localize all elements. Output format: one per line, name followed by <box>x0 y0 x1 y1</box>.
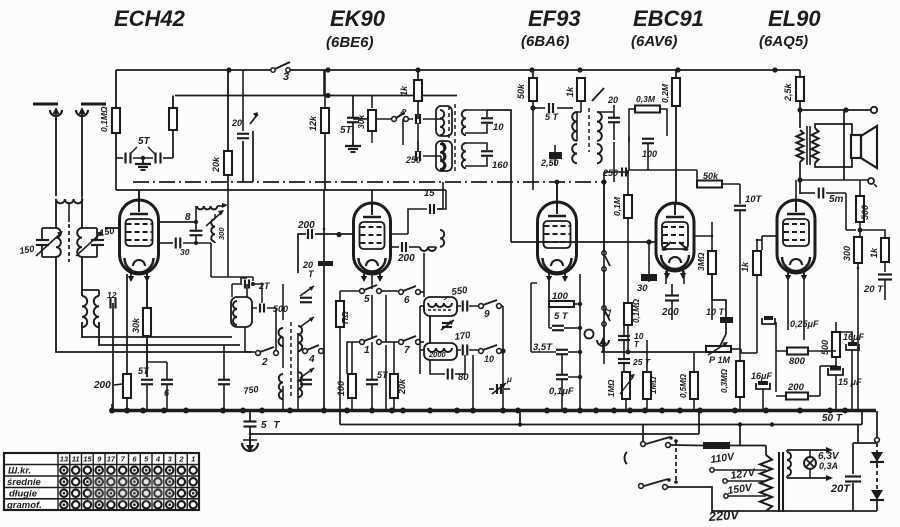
wire v1 left lead <box>105 227 120 229</box>
wire top B+ rail right <box>290 69 800 71</box>
svg-text:300: 300 <box>842 246 852 261</box>
resistor 0.3M 2 <box>736 361 744 397</box>
wire trimmer mu <box>489 388 510 390</box>
wire 200b <box>776 366 836 396</box>
svg-text:800: 800 <box>789 356 806 367</box>
tuned circuit 2 cap 150 <box>82 228 104 257</box>
tube label 6BA6 <box>521 33 569 50</box>
svg-text:160: 160 <box>492 160 509 171</box>
wire V1 top lead <box>138 190 140 202</box>
svg-text:4: 4 <box>308 354 315 365</box>
coil sw col b <box>279 372 302 399</box>
capacitor 20 det <box>592 88 620 140</box>
tap 110V <box>710 451 766 473</box>
svg-text:16μF: 16μF <box>843 332 864 342</box>
switch 3 on B+ rail <box>271 62 290 83</box>
junction top rail <box>226 67 777 72</box>
resistor 0.3M det <box>635 94 660 113</box>
wire OT sec bot <box>815 158 852 167</box>
svg-text:12k: 12k <box>308 115 318 131</box>
capacitor 5T out <box>819 188 844 206</box>
label 170 <box>454 330 472 343</box>
svg-text:0,3M: 0,3M <box>636 94 656 104</box>
svg-text:6: 6 <box>132 455 137 464</box>
wire ground sub-bus <box>250 411 699 435</box>
IF1 sec coil <box>462 110 466 135</box>
svg-text:16μF: 16μF <box>751 371 772 381</box>
resistor 1M 2 <box>643 372 651 399</box>
svg-text:20k: 20k <box>397 378 407 395</box>
wire grid col 324 <box>323 190 325 411</box>
core osc top <box>448 106 450 140</box>
table row label srednie <box>7 477 42 488</box>
label 5T arrows <box>130 136 155 154</box>
wire 50k <box>532 70 534 108</box>
wire sw cross <box>382 291 424 342</box>
svg-text:7: 7 <box>404 345 410 356</box>
wire 25k top <box>799 70 801 77</box>
label 50k <box>516 83 526 99</box>
svg-text:30: 30 <box>180 247 190 257</box>
coil 300 <box>211 219 226 242</box>
svg-text:220V: 220V <box>707 507 741 524</box>
svg-text:1k: 1k <box>740 261 750 272</box>
label 1k if2 <box>565 86 575 97</box>
svg-text:gramof.: gramof. <box>6 500 42 511</box>
svg-text:(6AV6): (6AV6) <box>631 33 677 50</box>
capacitor 15uF <box>828 366 862 387</box>
tube V4 EBC91 <box>656 203 694 279</box>
switch 2 <box>256 347 279 368</box>
transformer primary <box>760 446 772 512</box>
trimmer tank1 <box>441 320 454 330</box>
resistor 50k det <box>697 170 740 204</box>
capacitor 250 det2 <box>602 168 626 179</box>
coil 8 <box>196 203 228 222</box>
wire osc row <box>353 96 392 143</box>
switch 6 <box>399 286 421 306</box>
svg-text:500: 500 <box>820 340 830 355</box>
wire 604 col <box>603 182 605 364</box>
capacitor 10T det <box>734 194 763 361</box>
tube label EL90 <box>768 6 821 31</box>
tap 150V <box>724 482 766 499</box>
svg-text:127V: 127V <box>730 467 757 482</box>
label 0,1M ant <box>99 106 109 132</box>
wire 533 node <box>530 105 545 190</box>
coil osc bot <box>441 143 446 170</box>
wire plate node <box>797 101 871 128</box>
osc tank1 box <box>424 297 457 316</box>
capacitor 5T gnd <box>244 420 282 431</box>
wire det box2 <box>629 136 697 170</box>
scan smudge <box>88 476 173 502</box>
switch 11 <box>601 306 613 352</box>
svg-text:0,1M: 0,1M <box>612 196 622 216</box>
svg-text:200: 200 <box>787 382 805 393</box>
svg-text:15: 15 <box>83 455 92 464</box>
svg-text:200: 200 <box>661 307 679 318</box>
capacitor 750 <box>218 380 259 396</box>
wire 15 box <box>408 182 446 234</box>
wire det top <box>597 111 614 113</box>
svg-text:1k: 1k <box>869 247 879 258</box>
label 20k <box>211 156 221 173</box>
svg-text:11: 11 <box>72 455 80 464</box>
svg-text:150V: 150V <box>727 482 754 497</box>
resistor 200 b <box>786 382 808 400</box>
capacitor 25T low <box>618 357 651 367</box>
svg-text:15: 15 <box>424 188 435 199</box>
svg-text:30k: 30k <box>356 114 366 129</box>
wire fuse feed <box>739 425 741 446</box>
svg-text:5: 5 <box>364 294 370 305</box>
trim arrow 2 <box>76 231 103 256</box>
label 2.5k <box>783 82 793 102</box>
svg-text:T: T <box>308 269 315 279</box>
label 1M vert <box>607 379 616 397</box>
IF1 lower pri <box>436 141 452 171</box>
wire grid cap drop <box>115 158 117 190</box>
IF2 sec coil <box>597 112 602 141</box>
wire bus left end <box>111 404 113 411</box>
wire 16uf a <box>762 389 764 411</box>
wire v5 grid <box>762 236 777 250</box>
wire 30 to coil <box>183 241 211 245</box>
svg-text:250: 250 <box>405 155 421 165</box>
wire antenna 2 down <box>81 114 83 196</box>
label 03M2 <box>720 368 729 393</box>
mains switch bottom <box>639 478 671 489</box>
capacitor 250 ef93 <box>540 145 562 168</box>
tube V3 EF93 <box>538 202 577 282</box>
label 1k v5 <box>740 261 750 272</box>
switch 9 <box>479 300 502 320</box>
resistor 0.1M antenna <box>112 108 120 133</box>
IF2 lower coils <box>572 144 602 163</box>
svg-text:100: 100 <box>336 381 346 396</box>
switch 5 <box>360 285 382 305</box>
svg-text:(6AQ5): (6AQ5) <box>759 33 808 50</box>
wire OT bottom node <box>797 162 868 194</box>
wire tank2 <box>457 349 479 351</box>
coil sw col a <box>279 328 284 346</box>
wire sw1 left <box>347 342 359 374</box>
wire cap row <box>116 157 173 159</box>
svg-text:20: 20 <box>231 118 242 128</box>
IF1 cap 160 <box>481 151 509 171</box>
terminal pickup 2 <box>597 337 609 352</box>
IF2 core <box>588 108 590 152</box>
wire long col 424 <box>423 253 425 297</box>
svg-text:1k: 1k <box>399 85 409 96</box>
capacitor 100 det <box>642 139 657 159</box>
wire ant R top <box>115 70 117 108</box>
table row label dlugie <box>9 489 38 500</box>
svg-text:150: 150 <box>19 244 36 256</box>
wire 1k fb <box>860 230 885 272</box>
wire v5 cath <box>788 273 804 340</box>
label 3M <box>696 252 706 271</box>
svg-text:EK90: EK90 <box>330 6 386 31</box>
trimmer t3 <box>300 368 314 384</box>
junction screen rail <box>325 93 420 98</box>
wire v2 cath down <box>371 274 373 339</box>
wire heater sub-bus <box>340 411 862 427</box>
capacitor 20T ps <box>830 425 877 512</box>
wire main ground bus <box>112 409 876 413</box>
wire 20k sw <box>393 342 395 411</box>
svg-text:550: 550 <box>451 285 469 298</box>
capacitor 200 v2 <box>397 242 415 264</box>
resistor 2.5k <box>796 77 804 101</box>
capacitor 16uF a <box>751 371 772 389</box>
label 150 right <box>99 226 116 238</box>
resistor 1k <box>414 80 422 101</box>
coil tuned 2 <box>77 199 82 296</box>
resistor 1M band <box>336 301 344 327</box>
IF1 sec frame <box>465 110 487 133</box>
label 300 <box>842 246 852 261</box>
wire grid 242 <box>511 239 657 244</box>
resistor 3M <box>708 251 716 274</box>
label 500 b <box>820 340 830 355</box>
wire pot1 bus <box>625 399 627 411</box>
terminal ext speaker 2 <box>868 178 877 187</box>
trimmer mu <box>492 375 512 394</box>
coil wave band 2 <box>82 290 99 327</box>
resistor 12k <box>321 108 329 133</box>
resistor 30 ebc <box>637 274 657 294</box>
resistor 1k v5 <box>753 251 761 275</box>
label 12k <box>308 115 318 131</box>
svg-text:0,2M: 0,2M <box>660 83 670 103</box>
wire ebc cath <box>666 271 684 320</box>
svg-text:20 T: 20 T <box>863 284 884 295</box>
resistor 1k if2 <box>577 78 585 101</box>
wire r2 top <box>172 96 174 109</box>
svg-text:1k: 1k <box>565 86 575 97</box>
resistor 500 fb <box>856 196 864 222</box>
wire 500b <box>835 322 838 367</box>
ground below 5T <box>135 158 151 170</box>
capacitor 0.25uF <box>762 316 819 329</box>
speaker <box>851 126 877 168</box>
svg-text:30: 30 <box>637 283 648 294</box>
resistor 1k fb <box>881 238 889 262</box>
antenna terminal 1 <box>33 104 62 116</box>
ground 5T screen <box>345 140 361 152</box>
terminal pickup 1 <box>585 330 594 339</box>
wire v1 lower lead <box>158 242 173 244</box>
tap 127V <box>723 467 766 484</box>
IF1 sec2 frame <box>465 143 487 166</box>
tube label 6BE6 <box>326 34 374 51</box>
wire r2 bottom <box>172 130 174 158</box>
svg-text:5T: 5T <box>377 370 389 380</box>
wire ant R bottom <box>115 133 117 158</box>
svg-text:200: 200 <box>397 253 415 264</box>
ground main <box>242 437 258 452</box>
wire top B+ rail left <box>116 69 271 71</box>
wire mains bottom <box>667 487 766 511</box>
resistor 100 cath <box>549 280 582 307</box>
wire 300 <box>857 263 860 411</box>
svg-text:9: 9 <box>97 455 102 464</box>
output transformer secondary <box>812 128 819 163</box>
svg-text:3: 3 <box>168 455 173 464</box>
capacitor 16uF b <box>840 332 864 411</box>
IF1 lower sec <box>462 143 466 168</box>
resistor 300 <box>854 237 862 263</box>
wire 02M <box>675 70 677 205</box>
resistor right box <box>169 108 177 130</box>
diode D2 <box>870 490 884 500</box>
wire sw5 left <box>340 291 359 301</box>
svg-text:(6BE6): (6BE6) <box>326 34 374 51</box>
wire IF1 out <box>487 110 511 242</box>
svg-text:0,5MΩ: 0,5MΩ <box>679 373 688 398</box>
svg-text:3: 3 <box>283 71 289 83</box>
wire 750 <box>223 345 225 411</box>
wire left col to bus <box>112 303 114 411</box>
resistor 100 <box>348 374 356 398</box>
wire sw9 col <box>473 306 506 411</box>
resistor 0.1M avc <box>624 195 632 218</box>
svg-text:2: 2 <box>261 357 268 368</box>
svg-text:EL90: EL90 <box>768 6 821 31</box>
diode D1 <box>870 452 884 462</box>
potentiometer 1M <box>706 342 731 365</box>
svg-text:10: 10 <box>493 122 504 133</box>
svg-text:20T: 20T <box>830 483 851 495</box>
capacitor 250 ek90 <box>405 151 421 165</box>
capacitor 5T a <box>126 153 131 164</box>
capacitor grid osc <box>190 222 203 243</box>
resistor 20k sw <box>390 374 398 398</box>
svg-text:6: 6 <box>404 295 410 306</box>
svg-text:1MΩ: 1MΩ <box>607 379 616 397</box>
svg-text:1: 1 <box>364 345 370 356</box>
wire 200 bottom <box>126 398 128 411</box>
resistor 50k agc <box>529 78 537 101</box>
svg-text:750: 750 <box>243 384 259 396</box>
wire af line <box>601 351 706 353</box>
wire 500 to sw2 <box>275 308 277 350</box>
junction bus dots <box>109 408 848 414</box>
coil antenna primary <box>56 199 82 203</box>
wire 5T screen <box>352 96 354 141</box>
capacitor 5T sw <box>366 370 389 384</box>
wire screen rail <box>175 95 457 97</box>
label 220V <box>707 507 741 524</box>
svg-text:100: 100 <box>642 149 657 159</box>
IF1 cap 10 <box>481 118 504 133</box>
switch 10 <box>479 345 502 364</box>
tube label EK90 <box>330 6 386 31</box>
wire box to sw2 <box>245 327 255 352</box>
wire 1M band to bus <box>339 327 341 411</box>
wire 1k <box>417 70 419 119</box>
svg-text:30k: 30k <box>131 317 141 333</box>
wire 500fb <box>858 180 863 236</box>
wire mid col <box>385 295 387 411</box>
coil osc box <box>231 297 252 327</box>
svg-text:170: 170 <box>454 330 472 343</box>
svg-text:20k: 20k <box>211 156 221 173</box>
label 200 pointer <box>93 380 122 391</box>
output transformer primary <box>797 130 804 162</box>
switch 1 <box>360 336 382 356</box>
svg-text:5T: 5T <box>138 136 151 147</box>
wire sw caps <box>352 342 372 411</box>
label 6.3V <box>818 451 840 471</box>
svg-text:5 T: 5 T <box>545 112 560 122</box>
trimmer 12 <box>107 290 117 309</box>
svg-text:ECH42: ECH42 <box>114 6 186 31</box>
diode arrows in EBC91 <box>662 242 688 251</box>
capacitor 200 grid <box>297 220 315 239</box>
wire v1 cathode to bus <box>127 274 147 380</box>
label 05M <box>679 373 688 398</box>
svg-text:5т: 5т <box>829 194 844 205</box>
svg-text:T: T <box>634 340 640 349</box>
capacitor 20T fb <box>863 275 892 296</box>
svg-text:(6BA6): (6BA6) <box>521 33 569 50</box>
label 150 left <box>19 244 36 256</box>
label 1k <box>399 85 409 96</box>
switch link dashed <box>674 439 678 484</box>
svg-text:3MΩ: 3MΩ <box>696 252 706 271</box>
wire col 430 <box>429 316 431 343</box>
wire v5 top <box>795 180 797 200</box>
table row label gramof <box>6 500 42 511</box>
table contact circles <box>60 467 197 509</box>
tube V2 EK90 <box>354 203 391 282</box>
wire avc junction <box>601 172 629 185</box>
core dashed <box>68 224 70 262</box>
wire 3M <box>694 222 713 320</box>
svg-text:2,5k: 2,5k <box>783 82 793 102</box>
capacitor 10T ebc <box>706 274 733 348</box>
wire 20T fb <box>884 279 886 300</box>
svg-text:200: 200 <box>93 380 111 391</box>
resistor 30k <box>143 308 151 336</box>
wire pot wires <box>731 349 741 353</box>
svg-text:10: 10 <box>484 354 494 364</box>
svg-text:11: 11 <box>601 307 613 319</box>
wire 200cap box <box>298 234 306 273</box>
table row label sz.kr <box>8 466 31 477</box>
table header numbers <box>60 455 196 464</box>
wire 5t gnd <box>249 411 252 438</box>
wire 5T cath <box>146 384 148 411</box>
capacitor 3.5T <box>531 283 582 354</box>
wire caps col <box>623 320 625 372</box>
resistor 20k <box>224 151 232 175</box>
capacitor 6 <box>161 380 173 398</box>
label 30k <box>131 317 141 333</box>
wire speaker return <box>843 110 845 180</box>
svg-text:długie: długie <box>9 489 38 500</box>
svg-text:20: 20 <box>607 95 618 105</box>
transformer heater secondary <box>787 450 791 478</box>
wire 20k bottom <box>227 175 229 190</box>
trimmer t1 <box>300 286 314 302</box>
wire osc box wires <box>241 278 276 308</box>
wire rect bottom <box>766 510 877 512</box>
switch 7 <box>399 336 421 356</box>
